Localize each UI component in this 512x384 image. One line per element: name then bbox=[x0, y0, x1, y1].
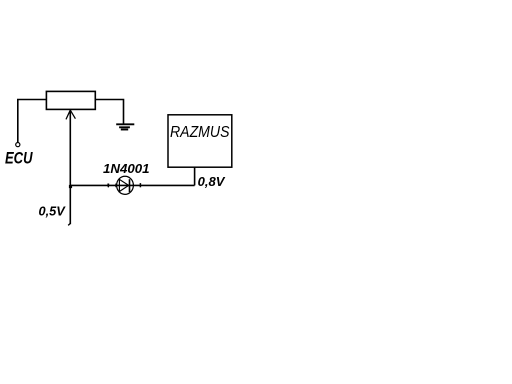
svg-text:ECU: ECU bbox=[5, 150, 33, 168]
diode D1 anode arrow pin bbox=[115, 183, 118, 187]
diode D1 circle bbox=[117, 176, 134, 194]
wire RAZMUS lead down bbox=[194, 167, 196, 185]
wire right lead to ground bbox=[95, 100, 123, 124]
junction node bbox=[69, 185, 72, 188]
diode D1 cathode bar bbox=[129, 179, 131, 192]
svg-text:RAZMUS: RAZMUS bbox=[170, 124, 230, 141]
terminal ECU open circle bbox=[16, 143, 20, 147]
wiper arrow of potentiometer bbox=[66, 109, 75, 224]
box RAZMUS bbox=[168, 115, 232, 167]
potentiometer body R1 bbox=[46, 91, 95, 109]
pin mark right of diode D1 bbox=[139, 183, 141, 187]
svg-text:0,8V: 0,8V bbox=[198, 175, 227, 189]
svg-text:0,5V: 0,5V bbox=[39, 204, 67, 218]
pin mark left of diode D1 bbox=[107, 184, 109, 188]
wire left lead to ECU bbox=[18, 100, 47, 143]
wire bottom hook bbox=[68, 223, 70, 225]
svg-text:1N4001: 1N4001 bbox=[103, 161, 150, 176]
wire horizontal to RAZMUS bbox=[70, 184, 194, 186]
ground bbox=[116, 124, 134, 129]
diode D1 triangle bbox=[119, 179, 128, 191]
